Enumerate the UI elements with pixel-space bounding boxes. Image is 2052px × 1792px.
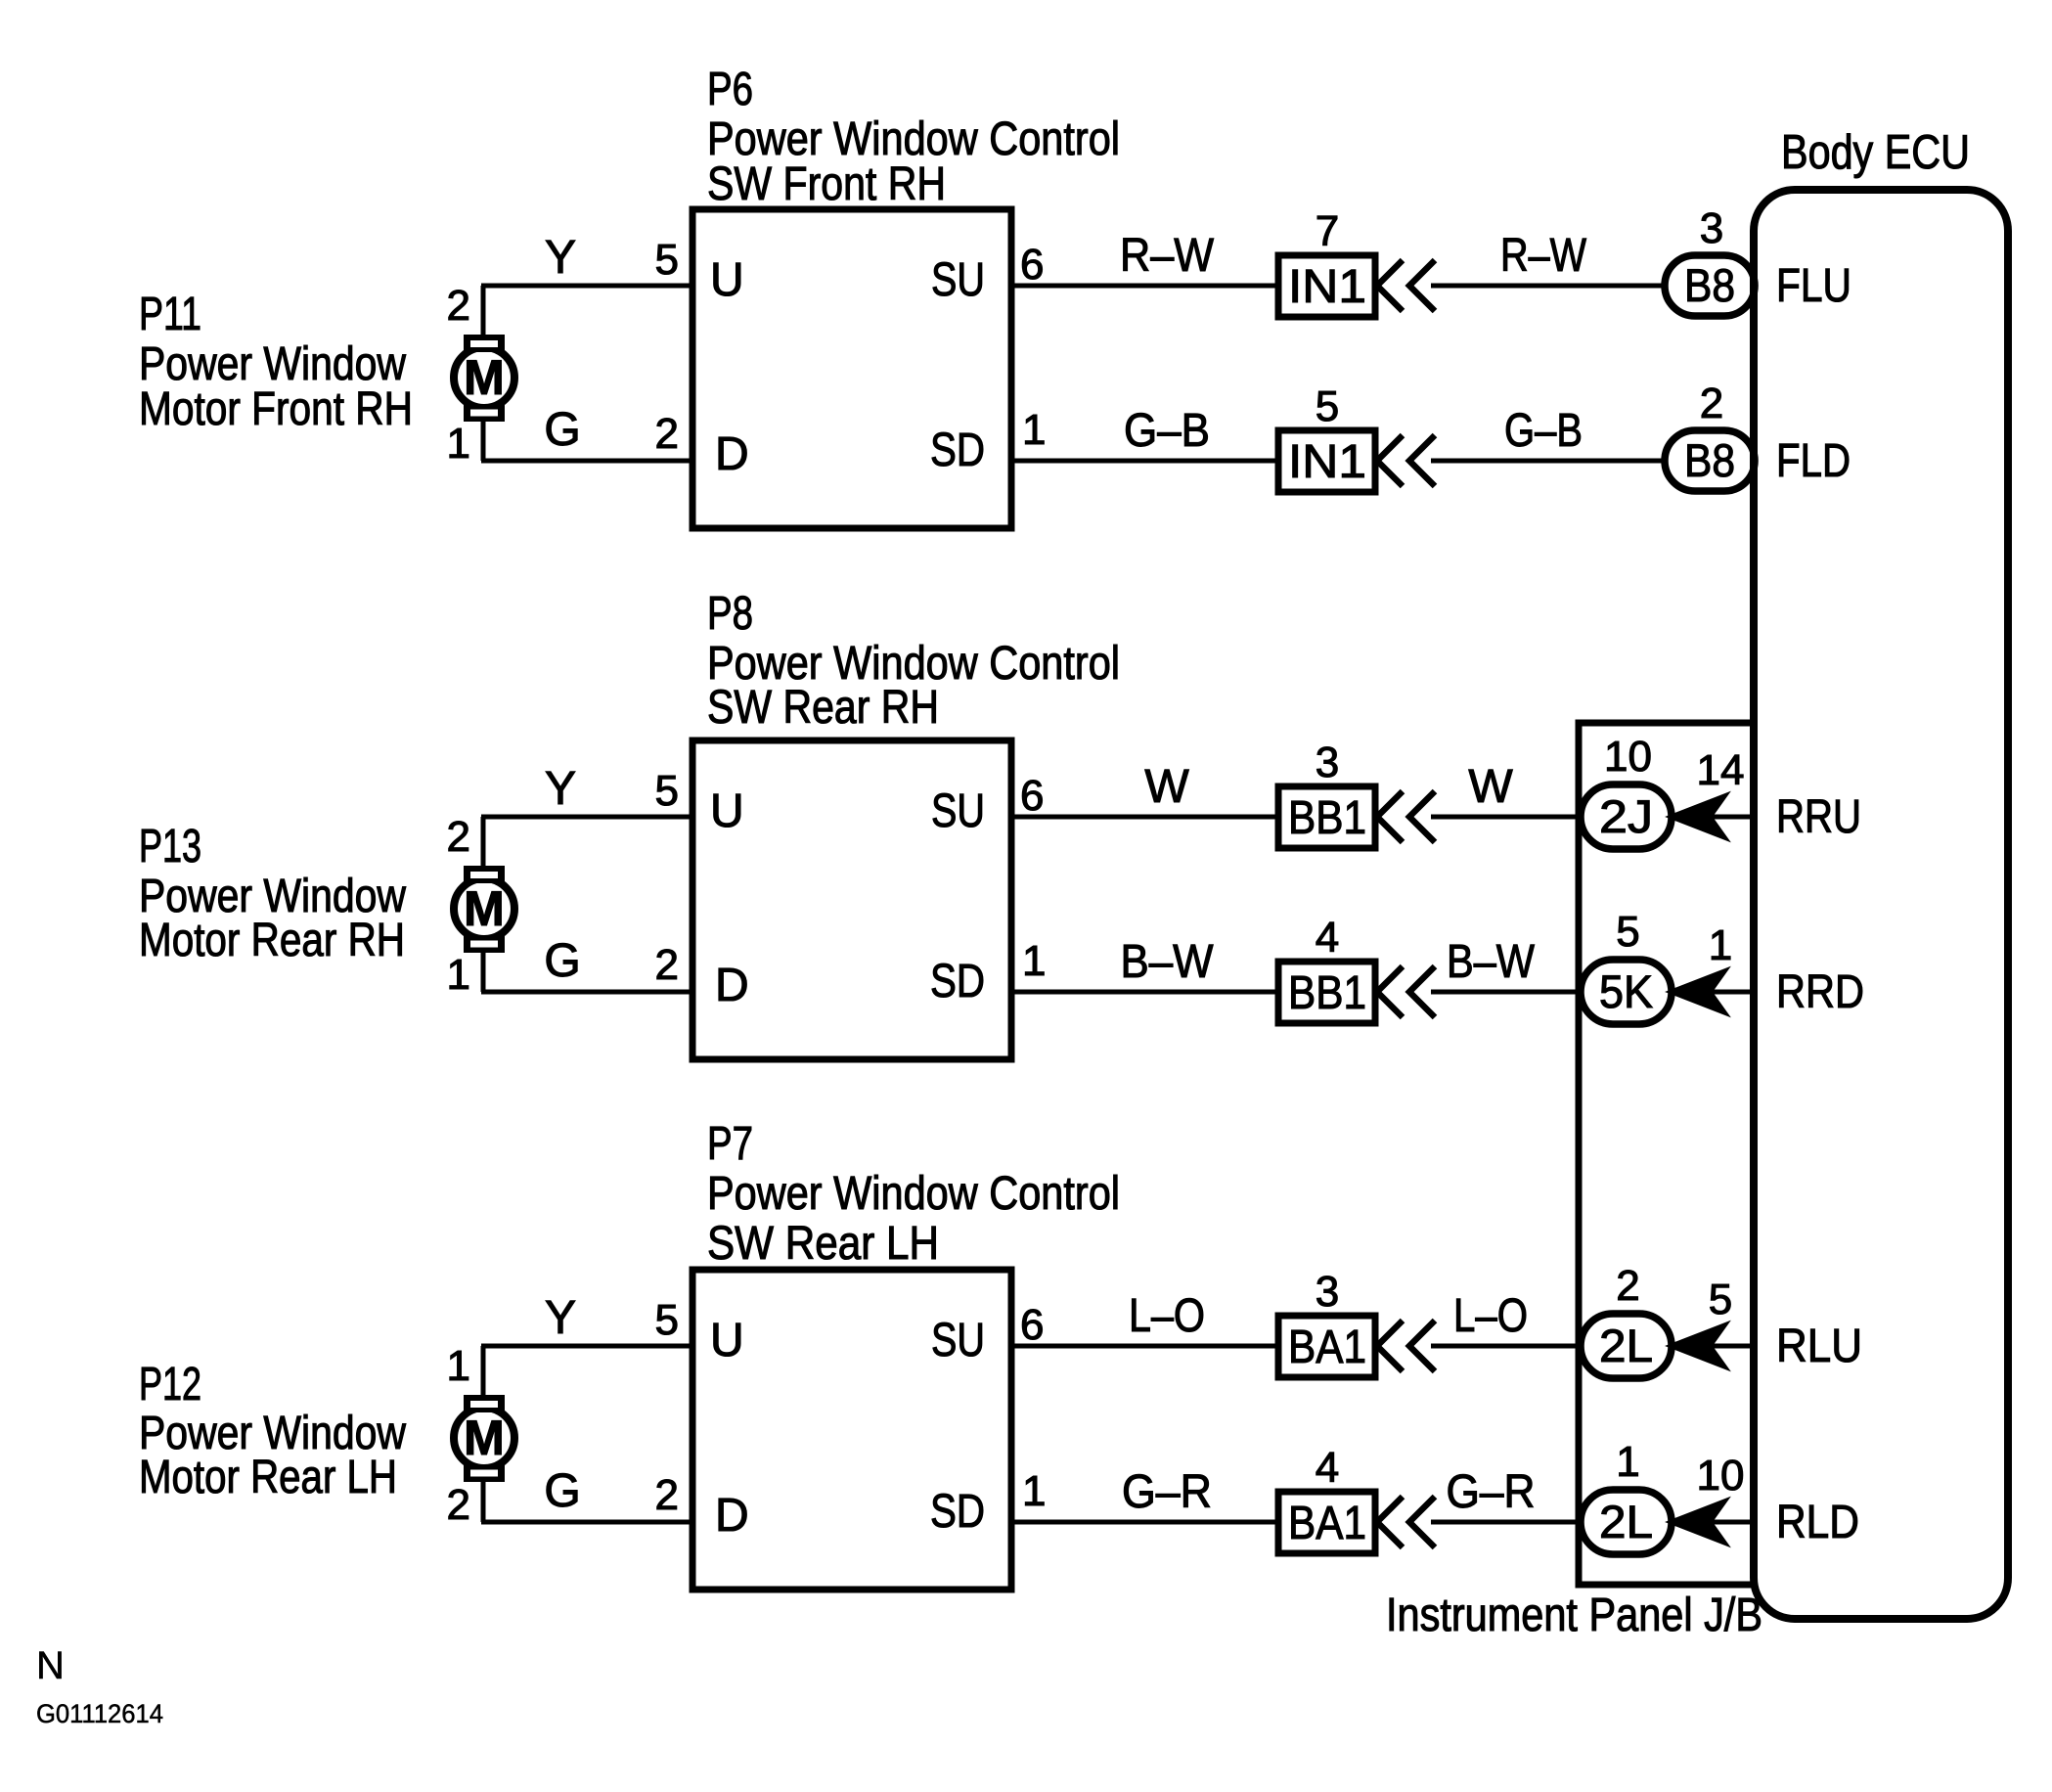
wire G from P12 pin 2 to P7 pin 2	[481, 1481, 692, 1522]
svg-text:6: 6	[1020, 241, 1044, 289]
svg-text:1: 1	[1616, 1438, 1639, 1486]
label: motor P11 name	[139, 289, 413, 435]
svg-text:2: 2	[655, 1471, 679, 1519]
svg-text:BB1: BB1	[1288, 792, 1366, 844]
svg-text:3: 3	[1316, 1268, 1339, 1316]
svg-text:B8: B8	[1684, 434, 1735, 486]
svg-text:SD: SD	[930, 425, 985, 476]
svg-text:3: 3	[1316, 739, 1339, 786]
svg-text:2L: 2L	[1599, 1320, 1653, 1371]
svg-text:BB1: BB1	[1288, 967, 1366, 1019]
svg-text:D: D	[715, 428, 749, 480]
splice IN1	[1278, 255, 1375, 317]
svg-text:P13: P13	[139, 821, 201, 873]
svg-text:Motor Rear RH: Motor Rear RH	[139, 915, 405, 966]
svg-text:1: 1	[447, 1342, 470, 1390]
wire from 5K to Body ECU	[1666, 990, 1754, 995]
svg-text:RRD: RRD	[1776, 966, 1864, 1018]
wire G from P11 pin 1 to P6 pin 2	[481, 421, 692, 461]
svg-text:2: 2	[1700, 380, 1723, 427]
splice BB1	[1278, 786, 1375, 848]
svg-text:Motor Rear LH: Motor Rear LH	[139, 1452, 397, 1503]
svg-text:P11: P11	[139, 289, 201, 340]
svg-text:RLD: RLD	[1776, 1497, 1859, 1548]
connector B8	[1665, 255, 1755, 316]
svg-text:M: M	[464, 881, 505, 936]
svg-text:SU: SU	[931, 1315, 985, 1366]
wire G from P13 pin 1 to P8 pin 2	[481, 952, 692, 992]
wire from 2L to Body ECU	[1666, 1344, 1754, 1349]
wire G&#8211;R from P7 pin 1 to splice BA1	[1011, 1520, 1278, 1525]
svg-text:2: 2	[655, 941, 679, 989]
wire Y from P11 pin 2 to P6 pin 5	[481, 286, 692, 336]
Body ECU box	[1754, 190, 2008, 1619]
svg-text:Power Window Control: Power Window Control	[707, 1168, 1120, 1220]
chevron connector marks	[1377, 260, 1435, 311]
connector 5K	[1581, 960, 1672, 1024]
svg-text:2: 2	[447, 1481, 470, 1529]
svg-text:M: M	[464, 1411, 505, 1465]
svg-text:G–R: G–R	[1447, 1466, 1536, 1518]
svg-text:D: D	[715, 960, 749, 1011]
svg-text:FLD: FLD	[1776, 435, 1851, 487]
wire G&#8211;R to connector 2L	[1431, 1520, 1586, 1525]
svg-text:FLU: FLU	[1776, 260, 1851, 312]
switch block P7 Power Window Control SW	[692, 1270, 1011, 1590]
svg-text:6: 6	[1020, 1301, 1044, 1349]
svg-text:G–B: G–B	[1504, 405, 1583, 457]
svg-text:Motor Front RH: Motor Front RH	[139, 383, 413, 435]
svg-text:G: G	[544, 1465, 580, 1517]
svg-text:RLU: RLU	[1776, 1321, 1862, 1372]
svg-text:Y: Y	[545, 232, 576, 284]
svg-text:SW Front RH: SW Front RH	[707, 158, 946, 210]
chevron connector marks	[1377, 1497, 1435, 1547]
svg-text:Body ECU: Body ECU	[1781, 126, 1970, 179]
svg-text:3: 3	[1700, 204, 1723, 252]
svg-text:M: M	[464, 350, 505, 405]
chevron connector marks	[1377, 435, 1435, 486]
label: connector P8 name	[707, 588, 1120, 734]
wire B&#8211;W from P8 pin 1 to splice BB1	[1011, 990, 1278, 995]
svg-text:G–B: G–B	[1124, 405, 1210, 457]
wire L&#8211;O from P7 pin 6 to splice BA1	[1011, 1344, 1278, 1349]
label: motor P13 name	[139, 821, 406, 966]
svg-text:L–O: L–O	[1453, 1290, 1528, 1342]
wire W to connector 2J	[1431, 815, 1586, 820]
svg-text:10: 10	[1697, 1452, 1745, 1500]
label: connector P7 name	[707, 1118, 1120, 1270]
label: connector P6 name	[707, 64, 1120, 210]
svg-text:1: 1	[447, 951, 470, 999]
svg-text:2: 2	[1616, 1262, 1639, 1310]
svg-text:1: 1	[447, 420, 470, 468]
wire Y from P12 pin 1 to P7 pin 5	[481, 1346, 692, 1397]
svg-text:SW Rear RH: SW Rear RH	[707, 682, 939, 734]
motor P13	[454, 866, 514, 953]
junction arrow into RLD	[1672, 1501, 1724, 1543]
svg-text:5: 5	[1316, 382, 1339, 430]
svg-text:1: 1	[1022, 406, 1046, 454]
wire W from P8 pin 6 to splice BB1	[1011, 815, 1278, 820]
wire R&#8211;W to connector B8	[1431, 284, 1671, 289]
splice BA1	[1278, 1316, 1375, 1377]
svg-text:SW Rear LH: SW Rear LH	[707, 1218, 939, 1270]
svg-text:2: 2	[447, 813, 470, 861]
svg-text:P8: P8	[707, 588, 753, 640]
junction arrow into RLU	[1672, 1325, 1724, 1366]
chevron connector marks	[1377, 966, 1435, 1017]
svg-text:G: G	[544, 404, 580, 456]
svg-text:IN1: IN1	[1288, 436, 1366, 488]
svg-text:P6: P6	[707, 64, 753, 115]
svg-text:4: 4	[1316, 914, 1339, 962]
svg-text:L–O: L–O	[1129, 1290, 1205, 1342]
svg-text:1: 1	[1022, 937, 1046, 985]
svg-text:BA1: BA1	[1288, 1498, 1366, 1549]
motor P11	[454, 335, 514, 422]
wire R&#8211;W from P6 pin 6 to splice IN1	[1011, 284, 1278, 289]
junction arrow into RRU	[1672, 796, 1724, 837]
svg-text:R–W: R–W	[1120, 230, 1215, 282]
wire G&#8211;B from P6 pin 1 to splice IN1	[1011, 459, 1278, 464]
splice BA1	[1278, 1492, 1375, 1553]
svg-text:2L: 2L	[1599, 1496, 1653, 1547]
svg-text:N: N	[36, 1644, 65, 1687]
switch block P6 Power Window Control SW	[692, 209, 1011, 528]
svg-text:R–W: R–W	[1500, 230, 1587, 282]
wire B&#8211;W to connector 5K	[1431, 990, 1586, 995]
svg-text:W: W	[1144, 761, 1189, 813]
svg-text:1: 1	[1709, 921, 1732, 969]
chevron connector marks	[1377, 1321, 1435, 1371]
svg-text:10: 10	[1604, 733, 1652, 781]
splice IN1	[1278, 430, 1375, 492]
junction block: Instrument Panel J/B box	[1579, 723, 1754, 1585]
svg-text:G01112614: G01112614	[36, 1699, 163, 1728]
svg-text:SD: SD	[930, 1486, 985, 1538]
svg-text:4: 4	[1316, 1444, 1339, 1492]
svg-text:B–W: B–W	[1447, 936, 1536, 988]
svg-text:5: 5	[1616, 908, 1639, 956]
chevron connector marks	[1377, 791, 1435, 842]
svg-text:SD: SD	[930, 956, 985, 1008]
svg-text:P7: P7	[707, 1118, 753, 1170]
wire G&#8211;B to connector B8	[1431, 459, 1671, 464]
svg-text:7: 7	[1316, 207, 1339, 255]
label: motor P12 name	[139, 1359, 406, 1503]
svg-text:5: 5	[1709, 1276, 1732, 1323]
svg-text:G–R: G–R	[1122, 1466, 1212, 1518]
svg-text:2: 2	[447, 282, 470, 330]
svg-text:SU: SU	[931, 785, 985, 837]
svg-text:B8: B8	[1684, 259, 1735, 311]
svg-text:U: U	[710, 1315, 744, 1366]
svg-text:D: D	[715, 1490, 749, 1542]
svg-text:5: 5	[655, 1296, 679, 1344]
svg-text:Instrument Panel J/B: Instrument Panel J/B	[1386, 1590, 1762, 1641]
svg-text:G: G	[544, 935, 580, 987]
svg-text:SU: SU	[931, 254, 985, 306]
connector 2J	[1581, 784, 1672, 849]
svg-text:Y: Y	[545, 763, 576, 815]
switch block P8 Power Window Control SW	[692, 740, 1011, 1059]
motor P12	[454, 1395, 514, 1482]
wire Y from P13 pin 2 to P8 pin 5	[481, 817, 692, 868]
svg-text:RRU: RRU	[1776, 791, 1861, 843]
connector B8	[1665, 430, 1755, 491]
svg-text:1: 1	[1022, 1467, 1046, 1515]
svg-text:6: 6	[1020, 772, 1044, 820]
svg-text:W: W	[1468, 761, 1513, 813]
svg-text:B–W: B–W	[1121, 936, 1215, 988]
wire from 2J to Body ECU	[1666, 815, 1754, 820]
svg-text:P12: P12	[139, 1359, 201, 1411]
svg-text:U: U	[710, 785, 744, 837]
svg-text:BA1: BA1	[1288, 1322, 1366, 1373]
connector 2L	[1581, 1314, 1672, 1378]
svg-text:Y: Y	[545, 1292, 576, 1344]
junction arrow into RRD	[1672, 971, 1724, 1012]
svg-text:IN1: IN1	[1288, 261, 1366, 313]
svg-text:2: 2	[655, 410, 679, 458]
svg-text:U: U	[710, 254, 744, 306]
svg-text:5K: 5K	[1599, 965, 1653, 1017]
wire L&#8211;O to connector 2L	[1431, 1344, 1586, 1349]
svg-text:2J: 2J	[1599, 790, 1653, 842]
svg-text:14: 14	[1697, 746, 1745, 794]
wire from 2L to Body ECU	[1666, 1520, 1754, 1525]
svg-text:5: 5	[655, 236, 679, 284]
svg-text:5: 5	[655, 767, 679, 815]
connector 2L	[1581, 1490, 1672, 1554]
splice BB1	[1278, 962, 1375, 1023]
